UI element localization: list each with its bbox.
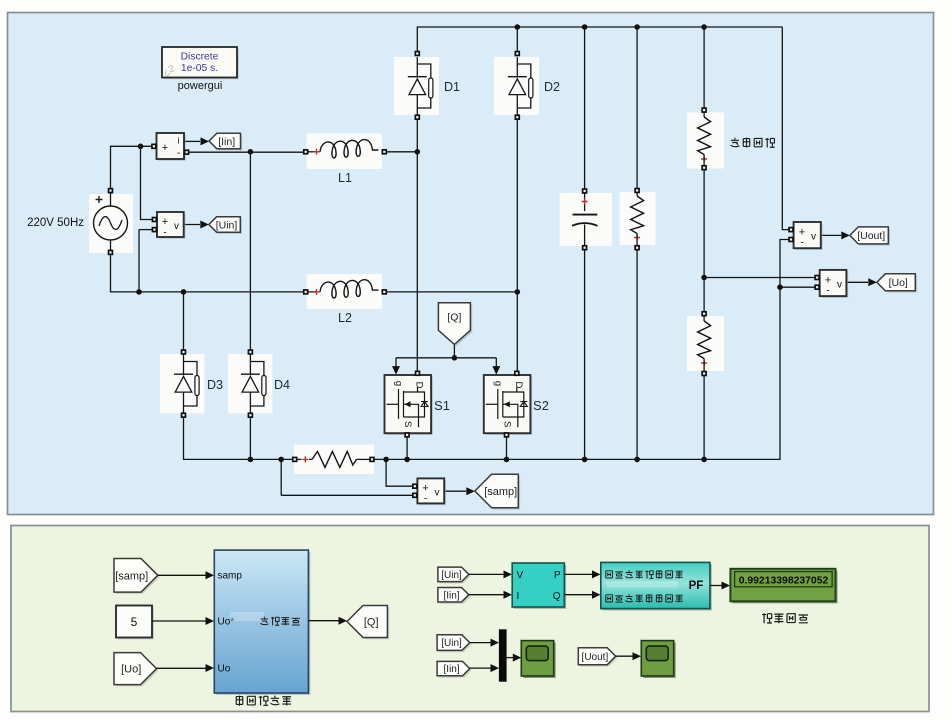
svg-text:S2: S2 [533,398,549,413]
wire samp- horizontal [281,494,415,496]
power computation block [601,562,712,610]
junction bus / load [634,24,640,30]
Uo+ port [814,275,820,281]
svg-text:v: v [837,280,842,291]
sampling lower bottom port [701,371,707,377]
V-I to PQ block [512,563,566,609]
svg-text:Uo: Uo [218,664,231,675]
svg-text:V: V [517,570,524,581]
svg-text:-: - [163,228,166,239]
svg-text:v: v [435,488,440,499]
signal wire v to [Uout] [821,231,850,239]
wire Uout to scope [616,652,641,660]
gate arrow S2 [492,366,500,375]
wire rail to samp+ [386,459,415,486]
mosfet S1 [385,375,433,435]
voltage measurement Uout block [794,222,823,250]
wire Q to S2 gate [495,358,497,369]
svg-text:S: S [501,421,512,427]
sense resistor left port [292,457,298,463]
sense resistor symbol [298,451,370,467]
wire Q [564,591,600,599]
goto tag [Iin] [209,133,242,150]
Uin+ port [152,217,158,223]
sampling resistor lower symbol [698,316,711,372]
junction rail / capacitor [582,457,588,463]
goto tag [Q] bottom [347,606,389,640]
D3 bottom port [181,412,187,418]
svg-text:+: + [162,216,168,228]
wire negative rail to Uout- [372,240,789,460]
svg-text:D: D [414,382,425,389]
wire D4 to rail [249,415,251,459]
wire bus to D2 [516,27,518,54]
wire S1 source to rail [406,435,408,460]
svg-text:i: i [178,136,180,146]
wire Uo to controller [157,664,215,672]
diode D2 symbol [508,57,533,115]
wire lower sampling resistor to rail [703,374,705,460]
wire rail to samp- vertical [280,459,282,495]
powergui block [161,47,238,79]
D1 cathode port [415,114,421,120]
svg-text:[Uo]: [Uo] [889,277,908,289]
svg-text:S: S [402,421,413,427]
wire S2 source to rail [506,435,508,460]
signal wire i to [Iin] [184,137,209,145]
wire sampling divider mid [703,168,705,314]
svg-text:samp: samp [218,571,243,582]
svg-text:-: - [177,148,180,159]
samp+ port [412,483,418,489]
Uout+ port [788,227,794,233]
from tag [Uin] to mux [437,635,471,652]
Uout- port [788,237,794,243]
display block power factor [730,569,837,604]
junction rail / D4 [248,457,254,463]
D3 top port [181,349,187,355]
junction rail / S1 source [404,457,410,463]
junction bus / D2 branch [515,24,521,30]
from tag [samp] bottom [114,559,160,594]
svg-text:PF: PF [689,580,704,592]
wire bus to sampling resistor [703,27,705,110]
S2 source port [504,432,510,438]
junction rail / S2 source [504,457,510,463]
goto tag [Uin] [209,217,242,234]
wire D3 to negative rail [184,415,295,459]
wire D2 to S2 drain [516,117,518,373]
samp- port [412,493,418,499]
source - port [108,250,114,256]
AC source 220V 50Hz [94,193,128,250]
mosfet S2 [484,375,532,435]
goto tag [Uo] [877,274,917,293]
junction rail / samp+ [383,457,389,463]
svg-text:v: v [174,221,179,232]
svg-text:L2: L2 [338,311,352,325]
svg-text:v: v [811,232,816,243]
wire Uin- down to bus [138,230,140,292]
junction Uout- / Uo- [777,284,783,290]
wire I- to L1 [189,151,305,153]
wire load resistor to rail [636,248,638,460]
svg-text:I: I [517,591,520,602]
S1 drain port [415,371,421,377]
wire source+ to I+ [111,146,152,190]
junction source+ / Uin+ [138,144,144,150]
from tag [Uo] bottom [114,653,158,687]
wire bus to Uout+ [782,27,788,230]
scope VI [521,641,555,678]
svg-text:[Q]: [Q] [447,311,461,323]
bottom panel (control area) [11,526,929,712]
from tag [Q] [438,303,472,346]
goto tag [samp] [475,474,520,509]
signal wire v to [samp] [444,487,475,495]
subsystem one-cycle controller [214,550,310,695]
sense resistor right port [369,457,375,463]
svg-text:L1: L1 [338,171,352,185]
svg-text:[Uout]: [Uout] [582,652,609,663]
wire controller to [Q] [308,617,347,625]
capacitor bottom port [582,245,588,251]
svg-text:+: + [162,142,168,154]
svg-text:[Uo]: [Uo] [121,664,141,676]
D2 top port [515,51,521,57]
I- port [184,149,190,155]
sampling resistor label [731,138,775,148]
L2 left port [303,289,309,295]
svg-text:1e-05 s.: 1e-05 s. [181,63,218,74]
diode D3 symbol [174,355,199,414]
sampling lower top port [701,311,707,317]
wire mux to scope [507,654,522,662]
junction bus / D3 [181,289,187,295]
wire source- bus to L2 [111,252,306,292]
svg-text:[Uin]: [Uin] [441,638,462,649]
power block label line2 网侧输入无功功率 [606,594,683,602]
wire Uin- stub [139,229,153,231]
signal wire v to [Uo] [847,278,877,286]
wire P [564,570,600,578]
controller label 单周期控制 [236,696,291,706]
sampling upper top port [701,107,707,113]
svg-text:[samp]: [samp] [115,570,148,582]
top panel (power circuit area) [8,13,934,515]
svg-text:g: g [393,381,404,386]
from tag [Iin] to PQ [438,588,471,604]
voltage measurement samp block [417,478,446,505]
junction bus / sampling [701,24,707,30]
source + port [108,188,114,194]
D1 anode port [415,51,421,57]
signal wire v to [Uin] [184,221,209,229]
voltage measurement Uo block [820,270,849,298]
wire to Uo- [780,286,816,288]
svg-text:D1: D1 [444,80,460,94]
svg-text:Q: Q [553,591,561,602]
L2 right port [382,289,388,295]
D4 top port [248,349,254,355]
svg-text:D3: D3 [207,378,223,392]
junction bus / capacitor [582,24,588,30]
svg-text:D2: D2 [544,80,560,94]
load resistor top port [634,188,640,194]
svg-text:P: P [554,570,561,581]
I+ port [151,144,157,150]
diode D4 symbol [241,355,266,414]
junction rail / samp- [278,457,284,463]
wire Q split [396,357,496,359]
gate arrow S1 [392,366,400,375]
diode D1 symbol [408,57,433,115]
load resistor bottom port [634,245,640,251]
voltage measurement Uin block [157,212,186,239]
svg-text:powergui: powergui [178,80,223,92]
svg-text:-: - [424,494,427,505]
current measurement Iin block [157,133,186,161]
wire top DC bus [417,27,782,54]
node A: L1 / D1-S1 [415,149,421,155]
wire bus B to D3 [183,292,185,352]
svg-text:[Uout]: [Uout] [857,230,885,242]
wire Iin to mux [470,664,499,672]
Uo- port [814,284,820,290]
mux [499,629,507,681]
junction rail / sampling lower [701,457,707,463]
wire Uin to V [469,570,512,578]
svg-text:5: 5 [131,615,138,629]
load resistor symbol [631,193,644,246]
wire Q to S1 gate [395,358,397,369]
wire Uin to mux [470,639,499,647]
wire Iin to I [469,591,512,599]
power block label line1 网侧输入有功功率 [606,570,683,578]
svg-text:g: g [493,381,504,386]
wire bus to load resistor [636,27,638,191]
sampling upper bottom port [701,165,707,171]
L1 left port [303,149,309,155]
svg-text:0.99213398237052: 0.99213398237052 [739,576,829,587]
wire node A to D4 [249,152,251,352]
junction divider mid / Uo+ [701,275,707,281]
wire 5 to controller [152,617,214,625]
display label 功率因数 [762,613,808,623]
wire Q tag down [453,344,455,357]
node B: L2 / D2-S2 [515,289,521,295]
svg-text:D: D [513,382,524,389]
from tag [Uin] to PQ [438,567,471,583]
constant block 5 [116,606,154,640]
wire samp to controller [158,571,214,579]
svg-text:Discrete: Discrete [181,52,219,63]
wire L1 to node A [385,151,418,153]
from tag [Uout] bottom [578,648,617,667]
svg-text:[Iin]: [Iin] [218,136,235,148]
svg-text:[Uin]: [Uin] [441,570,462,581]
scope Uout [641,641,675,678]
svg-text:[samp]: [samp] [484,486,517,498]
svg-text:[Q]: [Q] [364,617,379,629]
component backings [89,57,724,474]
svg-text:S1: S1 [434,398,450,413]
wire bus to capacitor [584,27,586,191]
junction gate drive split [452,355,458,361]
svg-text:-: - [800,238,803,249]
wire node to Uin+ [141,146,153,219]
junction rail / load [634,457,640,463]
L1 right port [382,149,388,155]
Uin- port [152,227,158,233]
inductor L2 [309,280,379,298]
capacitor top port [582,188,588,194]
S2 drain port [514,371,520,377]
capacitor C symbol [572,194,598,246]
wire L2 to node B [385,291,518,293]
sampling resistor upper symbol [698,112,711,166]
svg-text:220V 50Hz: 220V 50Hz [27,217,84,229]
svg-text:-: - [826,286,829,297]
svg-text:[Iin]: [Iin] [444,664,460,675]
controller internal label 驱动信号 [260,617,299,626]
svg-text:D4: D4 [274,378,290,392]
wire divider mid to Uo+ [704,277,816,279]
inductor L1 [309,140,379,158]
svg-text:[Uin]: [Uin] [216,219,238,231]
junction L1 line / D4 [248,149,254,155]
D4 bottom port [248,412,254,418]
junction bus / Uin- [136,289,142,295]
S1 source port [404,432,410,438]
D2 bottom port [515,114,521,120]
svg-text:[Iin]: [Iin] [443,590,459,601]
goto tag [Uout] [850,227,890,246]
from tag [Iin] to mux [437,661,471,677]
wire PF to display [710,582,730,590]
wire D1 to S1 drain [416,117,418,373]
wire capacitor to rail [584,248,586,460]
